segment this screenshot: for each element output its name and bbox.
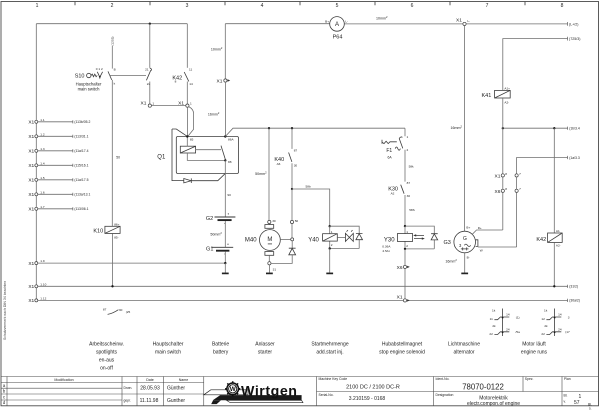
svg-text:11.11.98: 11.11.98 [140,398,159,404]
wire 725 line to K41 [503,37,568,91]
svg-text:B+: B+ [466,226,470,230]
svg-text:8: 8 [505,187,507,191]
svg-text:1.7: 1.7 [40,205,45,209]
wire top bus right of P64 to frame edge [344,22,567,26]
fuse F1 [382,128,414,181]
svg-text:1k: 1k [492,308,496,312]
wire from 1202 down to S10 pin B [111,46,113,69]
X1 terminal row 6 [28,190,90,198]
wire K41 output column down through X1 X6 [502,128,504,174]
svg-text:Arbeitsscheinw.: Arbeitsscheinw. [89,341,124,347]
connector pin 31 of starter [268,262,277,272]
svg-text:87: 87 [103,308,107,312]
wire bus 1b from Q1 86A jog to F1 corner [225,128,405,136]
svg-text:X1: X1 [397,294,403,300]
svg-text:(17: (17 [565,330,570,334]
svg-text:Modification: Modification [54,378,73,382]
svg-text:Hubabstellmagnet: Hubabstellmagnet [382,341,423,347]
svg-text:1.12: 1.12 [40,297,46,301]
connector X1 below contact 21-22 [141,100,155,107]
svg-text:8: 8 [175,80,177,84]
junction K42 on bus B [553,285,555,287]
ground Y40 [326,249,333,274]
svg-text:W: W [230,386,236,393]
svg-text:3.210159 - 0168: 3.210159 - 0168 [349,396,386,402]
G3 W terminal bracket [476,240,478,247]
junction bus to K40 contact [291,127,293,129]
wire K40 output down to starter solenoid pin 50 [291,189,293,220]
wire main feed plug to Q1 pin 86A [224,82,226,136]
wire X6 down to X1 on bus C [404,269,406,299]
wire G2 to G1 [224,221,226,247]
svg-text:on-off: on-off [100,365,113,371]
svg-text:30: 30 [294,164,298,168]
function label Hauptschalter main switch [153,341,184,355]
svg-text:X1: X1 [28,163,34,169]
svg-text:14: 14 [506,313,510,317]
connector pin 50 starter solenoid [290,219,298,224]
svg-text:(1): (1) [516,315,520,319]
svg-text:Date: Date [146,378,154,382]
svg-text:main switch: main switch [78,87,101,92]
svg-text:1: 1 [331,230,333,234]
svg-text:58b: 58b [306,185,311,189]
svg-text:D+: D+ [478,226,482,230]
connector X1 on bus C [397,294,410,302]
svg-text:M: M [267,237,272,243]
svg-text:1.1: 1.1 [40,118,45,122]
function label Anlasser starter [255,341,275,355]
starter motor M40 [245,224,280,262]
svg-text:7: 7 [519,187,521,191]
wire G3 W to X1 pin7 column [478,246,517,248]
svg-text:4: 4 [261,3,264,9]
svg-text:85-: 85- [114,236,118,240]
svg-text:(1202): (1202) [110,37,114,46]
wire K10 down to bus B [112,233,114,286]
svg-text:22: 22 [541,332,545,336]
shutoff solenoid Y30 [382,225,437,253]
junction battery minus node [224,262,226,264]
ground alternator [461,272,468,274]
svg-text:7: 7 [486,3,489,9]
svg-text:Name: Name [179,378,189,382]
svg-text:3: 3 [568,315,570,319]
svg-text:stop engine solenoid: stop engine solenoid [379,349,425,355]
X1 terminal row 4 [28,161,88,169]
svg-text:battery: battery [213,349,229,355]
relay K10 [93,223,120,240]
relay K41 [482,87,511,105]
svg-text:/5a: /5a [516,330,521,334]
junction K10 on bus B [111,285,113,287]
starter relay Q1 [157,129,238,183]
svg-text:X1: X1 [217,79,223,85]
X1 terminal row on bus B [28,282,46,290]
svg-text:Lichtmaschine: Lichtmaschine [448,341,480,347]
X1 terminal row on bus C [28,297,46,305]
function label Lichtmaschine alternator [448,341,480,355]
svg-text:1: 1 [152,101,154,105]
svg-text:21: 21 [145,67,149,71]
svg-text:88: 88 [228,160,232,164]
svg-text:A6: A6 [277,162,281,166]
battery G2 [206,213,236,224]
cross reference arrow 87-30 sheet 25 [103,308,131,315]
svg-text:X6: X6 [495,189,501,195]
contact cross-reference chart K42 [541,308,570,336]
svg-text:Hauptschalter: Hauptschalter [76,81,102,86]
svg-text:14: 14 [189,82,193,86]
svg-text:(25: (25 [126,310,131,314]
svg-text:Hauptschalter: Hauptschalter [153,341,184,347]
svg-text:starter: starter [258,349,273,355]
junction K40 output node [291,188,293,190]
svg-text:1.6: 1.6 [40,190,45,194]
svg-text:(113/06.1: (113/06.1 [74,207,88,211]
alternator G3 [443,226,475,253]
svg-text:Y40: Y40 [308,238,319,244]
wire branch loop into Q1 pin 85 [188,107,193,136]
wire 1a line to X1 pin7 column [517,156,568,174]
wire pin50 plug to solenoid terminal [291,224,293,238]
svg-text:1: 1 [406,230,408,234]
relay contact K42 top [172,24,193,104]
ammeter P64 [325,17,348,41]
svg-text:(L+/2): (L+/2) [569,22,579,26]
svg-text:7: 7 [519,172,521,176]
svg-text:en-aus: en-aus [99,357,115,363]
svg-text:gepr.: gepr. [124,399,132,403]
connector X6 under Y30 [397,265,410,271]
connector pair X1 pins 8 and 7 [495,172,522,180]
svg-text:(1b/3.4: (1b/3.4 [569,127,580,131]
svg-text:c: c [3,394,5,399]
svg-text:6: 6 [411,3,414,9]
svg-text:A2: A2 [391,192,395,196]
wires between X1 and X6 plug rows [503,177,517,189]
svg-text:A: A [335,22,339,28]
bus B wire full width [38,285,568,288]
connector pair X6 pins 8 and 7 [495,187,522,195]
svg-text:(11a/17.5: (11a/17.5 [74,178,88,182]
svg-text:X1: X1 [456,18,462,24]
wire bus 1b right segment to frame [503,127,568,130]
svg-text:B: B [114,68,116,72]
connector X1 inline on main feed [217,79,231,85]
ground starter minus [266,265,273,274]
svg-text:1k: 1k [544,308,548,312]
wire G3 B- to ground [464,253,466,273]
svg-text:3: 3 [186,3,189,9]
svg-text:K10: K10 [93,228,103,234]
svg-text:X1: X1 [28,134,34,140]
svg-text:1: 1 [36,3,39,9]
wire S10 output 50 down to K10 [111,80,113,226]
svg-text:B+: B+ [325,19,329,23]
svg-text:5.: 5. [589,407,592,410]
svg-text:50: 50 [295,219,299,223]
function label Arbeitsscheinw. spotlights en-aus on-off [89,341,124,371]
svg-text:(725/3): (725/3) [569,37,580,41]
svg-text:86+: 86+ [114,223,119,227]
contact cross-reference chart K41 [489,308,520,336]
wire K40 output to Y40 column [292,189,330,226]
wire Y30 down to X6 [404,249,406,265]
svg-text:Startmehrmenge: Startmehrmenge [311,341,348,347]
wire K41 to bus 1b [502,98,504,128]
svg-text:(30a/2): (30a/2) [569,299,580,303]
svg-text:alternator: alternator [453,349,474,355]
svg-text:main switch: main switch [155,349,181,355]
svg-text:22: 22 [489,332,493,336]
svg-text:8: 8 [505,172,507,176]
svg-text:X1: X1 [178,100,184,106]
left bus vertical L+ feed [35,24,37,301]
svg-text:G: G [463,236,467,242]
svg-text:11: 11 [189,67,192,71]
title block grid [1,377,599,406]
svg-text:(113/31.1: (113/31.1 [74,135,88,139]
svg-text:spotlights: spotlights [96,349,118,355]
junction top bus to S10 column [149,23,151,25]
svg-text:57: 57 [574,400,580,406]
svg-text:2: 2 [111,3,114,9]
svg-text:85: 85 [190,137,194,141]
svg-text:2k: 2k [492,324,496,328]
svg-text:1.10: 1.10 [40,282,46,286]
svg-text:1.9: 1.9 [40,259,45,263]
battery G1 [206,244,233,255]
svg-text:X1: X1 [28,192,34,198]
svg-text:58S: 58S [409,208,415,212]
connector solenoid terminal on motor [280,238,293,241]
svg-text:v.: v. [564,399,566,403]
X1 terminal row 1 [28,118,90,126]
X1 terminal row 5 [28,176,88,184]
svg-text:F1: F1 [386,148,392,154]
svg-text:8: 8 [561,3,564,9]
svg-text:X1: X1 [141,100,147,106]
svg-text:X1: X1 [28,284,34,290]
main switch S10 [75,67,116,92]
svg-text:1.2: 1.2 [40,132,45,136]
svg-text:0 1 2: 0 1 2 [96,67,103,71]
alternator feed wire B+ from top X1 down to G3 [464,26,466,232]
svg-text:(115/16.1: (115/16.1 [74,164,88,168]
wire X1 plug down into Q1 pin 85 [186,107,188,135]
wire M40 feed 50mm2 from bus down to starter pin 30 [268,128,270,220]
svg-text:1.5: 1.5 [40,176,45,180]
connector X1 on top bus [456,18,470,26]
svg-text:A2-: A2- [504,100,509,104]
svg-text:5: 5 [336,3,339,9]
svg-text:M40: M40 [245,238,257,244]
X1 terminal row 2 [28,132,88,140]
svg-text:Gunther: Gunther [167,398,185,404]
function label Startmehrmenge add.start inj. [311,341,348,355]
svg-text:A1: A1 [556,229,560,233]
svg-text:1: 1 [407,135,409,139]
svg-text:Günther: Günther [167,386,185,392]
svg-text:X1: X1 [28,207,34,213]
svg-text:24: 24 [506,327,510,331]
svg-text:Wirtgen: Wirtgen [241,383,298,399]
wire main feed from top bus corner down to X1 plug [224,24,226,79]
svg-text:add.start inj.: add.start inj. [316,349,343,355]
svg-text:31: 31 [273,268,277,272]
svg-text:1.4: 1.4 [40,161,45,165]
svg-text:58k: 58k [409,165,414,169]
svg-text:2: 2 [406,244,408,248]
svg-text:Ident-No.: Ident-No. [436,377,450,381]
svg-text:12: 12 [541,317,545,321]
wire top bus middle segment [225,23,329,25]
svg-text:Serial-No.: Serial-No. [319,393,334,397]
svg-text:K41: K41 [482,93,492,99]
svg-text:X1: X1 [28,298,34,304]
Wirtgen logo [204,381,303,404]
svg-text:B-: B- [467,256,470,260]
relay contact K40 [274,128,297,189]
svg-text:G2: G2 [206,216,213,222]
svg-text:1: 1 [190,101,192,105]
function label Batterie battery [212,341,229,355]
svg-text:2k: 2k [544,324,548,328]
svg-text:(1a/3.3: (1a/3.3 [569,156,580,160]
wire G3 D+ to X6 column [472,230,503,235]
svg-text:Motor läuft: Motor läuft [522,341,546,347]
svg-text:30: 30 [272,219,276,223]
svg-text:G3: G3 [443,240,450,246]
wire between the two X1 plugs [151,105,185,107]
svg-text:Designation: Designation [436,393,454,397]
svg-text:engine runs: engine runs [521,349,548,355]
svg-text:Y30: Y30 [384,238,395,244]
svg-text:2: 2 [407,148,409,152]
svg-text:(31/2): (31/2) [569,285,578,289]
wire Q1 output down to battery G2 [224,160,226,217]
svg-text:A2-: A2- [556,243,561,247]
svg-text:28.05.93: 28.05.93 [140,385,160,391]
X1 terminal row 3 [28,147,88,155]
solenoid valve Y40 [308,225,362,250]
svg-text:Machine Key Code: Machine Key Code [319,377,348,381]
function label Motor läuft engine runs [521,341,548,355]
svg-text:1.3: 1.3 [40,147,45,151]
X1 terminal row 7 [28,205,88,213]
svg-text:30: 30 [407,194,411,198]
svg-text:90: 90 [227,193,231,197]
svg-text:Bl.: Bl. [564,393,568,397]
ground battery minus [222,263,229,273]
junction bus to M40 feed [268,127,270,129]
svg-text:Drwn.: Drwn. [124,386,133,390]
svg-text:30: 30 [119,308,123,312]
svg-text:24: 24 [558,327,562,331]
svg-text:(113a/13.1: (113a/13.1 [74,193,90,197]
svg-text:(11a/17.4: (11a/17.4 [74,149,88,153]
X1 terminal row 31 wire to battery minus [28,259,224,267]
svg-text:Schutzvermerk nach DIN 34 beac: Schutzvermerk nach DIN 34 beachten [3,281,7,340]
svg-text:86A: 86A [228,137,234,141]
wire X6 pin8 down to G3 D+ [502,192,504,230]
svg-text:X1: X1 [28,261,34,267]
svg-text:K42: K42 [536,237,546,243]
relay contact K30 [388,181,415,226]
svg-text:87: 87 [294,148,298,152]
relay K42 coil [536,128,562,286]
contact 21-22 in S10 column [145,24,151,104]
connector pin 30 of starter [268,219,276,224]
svg-text:L-: L- [467,19,470,23]
svg-text:2100 DC / 2100 DC-R: 2100 DC / 2100 DC-R [346,384,400,390]
wire top bus left segment [36,23,187,25]
diode across starter solenoid [271,241,296,264]
svg-text:87: 87 [407,181,411,185]
svg-text:14: 14 [558,313,562,317]
svg-text:Plan: Plan [564,377,571,381]
wire X6 pin7 down to G3 W [516,192,518,247]
svg-text:2: 2 [331,243,333,247]
junction K42 column on bus 1b [553,127,555,129]
svg-text:11: 11 [490,317,493,321]
svg-text:6A: 6A [388,156,393,160]
svg-text:P64: P64 [333,35,343,41]
svg-text:electr.compon.of engine: electr.compon.of engine [467,401,520,407]
svg-text:A1+: A1+ [504,87,510,91]
svg-text:X6: X6 [397,265,403,271]
svg-text:78070-0122: 78070-0122 [462,382,504,391]
svg-text:X1: X1 [28,178,34,184]
bus C wire full width [38,299,568,302]
svg-text:Q1: Q1 [157,155,166,161]
svg-text:X1: X1 [495,174,501,180]
svg-text:Anlasser: Anlasser [255,341,275,347]
function label Hubabstellmagnet stop engine solenoid [379,341,425,355]
svg-text:Batterie: Batterie [212,341,229,347]
svg-text:4.5At: 4.5At [382,249,389,253]
svg-text:X1: X1 [28,120,34,126]
svg-text:L-: L- [345,19,348,23]
wire G1 to ground junction [224,252,226,264]
svg-text:Spez.: Spez. [525,377,534,381]
svg-text:0.36A: 0.36A [382,244,391,248]
wire S10 to contact 21-22 [110,74,146,76]
column tick marks [75,2,525,6]
svg-text:S10: S10 [75,74,85,80]
svg-text:(113b/05.2: (113b/05.2 [74,120,90,124]
svg-text:W: W [480,248,483,252]
svg-text:50: 50 [116,156,120,160]
connector X1 below K42 contact [178,100,192,107]
junction K41 column on bus 1b [502,127,504,129]
svg-text:X1: X1 [28,149,34,155]
